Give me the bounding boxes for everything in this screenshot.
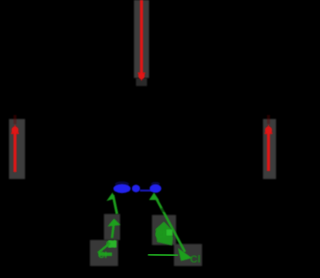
jpeg halo block behind right O-H dipole arrow — [263, 119, 276, 179]
left CCl3: bond tail right of bottom Cl — [113, 254, 122, 256]
nitrogen label blob N (right) — [150, 182, 162, 193]
bond N=N (blue) — [140, 190, 152, 192]
right CCl3: solid arrowhead pointing right — [178, 248, 192, 261]
dipole arrow (red), left: pointing up — [11, 115, 19, 172]
right CCl3: bright dot artifact — [167, 230, 173, 236]
nitrogen label blob N (left) — [113, 181, 130, 193]
nitrogen label blob N (middle) — [132, 185, 140, 192]
jpeg halo block behind left O-H dipole arrow — [9, 119, 25, 179]
jpeg halo blocks behind left CCl3 group — [104, 214, 120, 240]
left CCl3: C-Cl bond diagonal — [98, 243, 110, 253]
left CCl3: dipole arrow 2 (green) pointing up — [108, 219, 121, 239]
right CCl3: dipole arrow (green) pointing up — [149, 193, 185, 253]
left CCl3: dipole arrow 1 (green) pointing up — [107, 193, 118, 215]
jpeg halo blocks behind right CCl3 group — [152, 215, 176, 245]
dipole arrow (red), top: C=O pointing down — [138, 0, 146, 81]
dipole arrow (red), right: pointing up — [264, 115, 272, 171]
jpeg halo block behind top C=O dipole arrow — [134, 0, 149, 78]
right CCl3: green cluster mass (jpeg) — [156, 222, 174, 246]
svg-text:Cl: Cl — [190, 254, 201, 266]
jpeg dark gaps on right diagonal — [161, 208, 166, 212]
right CCl3: bottom horizontal bond — [148, 255, 178, 256]
